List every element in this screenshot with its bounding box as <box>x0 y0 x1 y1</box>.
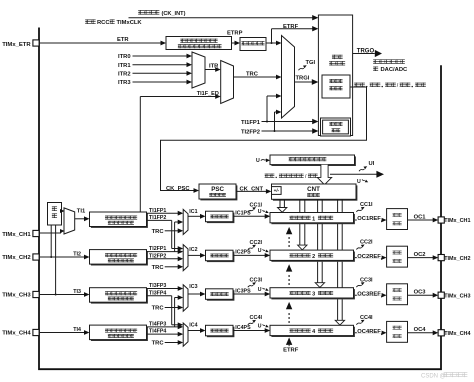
box prescaler 预分频器 (channel 3) <box>207 290 235 301</box>
label 复位、使能、递增/递减、计数 <box>354 83 365 87</box>
box output control 输出控制 (channel 3) <box>387 284 408 305</box>
svg-text:TI1FP1: TI1FP1 <box>149 208 166 214</box>
svg-text:TI1F_ED: TI1F_ED <box>197 91 219 97</box>
wire OC2 <box>408 257 435 259</box>
label TGI interrupt flag <box>299 68 304 70</box>
mux TRC selector <box>221 61 234 104</box>
wire OC4REF <box>355 332 383 334</box>
wire ETRF <box>272 28 315 30</box>
wire TI2FP2 <box>147 258 180 260</box>
svg-text:IC3PS: IC3PS <box>235 288 251 294</box>
svg-text:CK_CNT: CK_CNT <box>240 186 264 192</box>
wire TI4FP3 riser (crosses to IC3) <box>174 298 176 327</box>
svg-text:U: U <box>258 287 262 293</box>
svg-text:RCC: RCC <box>97 20 110 26</box>
svg-text:TRC: TRC <box>152 341 165 347</box>
svg-text:CNT: CNT <box>307 186 320 193</box>
wire CK_CNT <box>236 190 268 192</box>
box trigger controller 触发控制器 <box>318 15 352 136</box>
label to other timers / DAC/ADC <box>373 59 405 63</box>
svg-text:IC2: IC2 <box>189 247 197 253</box>
svg-text:DAC/ADC: DAC/ADC <box>381 67 409 73</box>
svg-text:IC1: IC1 <box>189 209 197 215</box>
wire XOR input from CH2 <box>50 225 52 257</box>
box slave mode controller 从模式控制器 <box>322 75 350 98</box>
svg-text:ITR0: ITR0 <box>118 54 131 60</box>
svg-text:TRC: TRC <box>152 306 165 312</box>
svg-text:U: U <box>258 323 262 329</box>
svg-text:TRGI: TRGI <box>296 75 310 81</box>
svg-text:U: U <box>258 209 262 215</box>
wire TRGO <box>353 53 375 55</box>
box encoder interface 编码器接口 <box>321 118 351 136</box>
register capture/compare 4 捕获/比较4寄存器 <box>271 327 355 337</box>
wire OC1 <box>408 219 435 221</box>
svg-text:1: 1 <box>312 216 315 222</box>
pad TIMx_CH4 <box>33 329 39 335</box>
box input filter & edge detector (channel 2) <box>91 251 148 266</box>
register capture/compare 3 捕获/比较3寄存器 <box>271 289 355 299</box>
box PSC prescaler <box>200 185 237 200</box>
pad TIMx_ETR <box>33 40 39 46</box>
svg-text:TI1: TI1 <box>77 208 86 214</box>
svg-text:TIMx_CH2: TIMx_CH2 <box>444 256 470 262</box>
wire TI1FP1 riser to trigger mux <box>266 96 268 122</box>
svg-text:U: U <box>258 248 262 254</box>
wire ETR <box>39 42 162 44</box>
svg-text:IC3: IC3 <box>189 284 197 290</box>
mux trigger input (TRGI) selector <box>282 36 295 119</box>
wire TRC stub (channel 3) <box>165 307 180 309</box>
svg-text:CK_PSC: CK_PSC <box>166 186 190 192</box>
wire TRC stub (channel 1) <box>165 230 180 232</box>
label UI update interrupt <box>359 169 364 171</box>
pad TIMx_CH3 <box>33 291 39 297</box>
wire U event right <box>330 173 377 175</box>
svg-text:3: 3 <box>312 292 315 298</box>
svg-text:TI4: TI4 <box>73 327 81 333</box>
svg-text:TRC: TRC <box>246 72 259 78</box>
wire CK_INT <box>129 17 315 19</box>
wire IC4PS <box>233 330 267 332</box>
wire TI3 <box>39 294 86 296</box>
bus CNT to capture/compare registers (segment above CC1) <box>279 199 281 207</box>
wire TRC stub (channel 2) <box>165 266 180 268</box>
svg-text:TI2: TI2 <box>73 251 81 257</box>
wire IC1PS <box>233 215 267 217</box>
wire OC1REF <box>355 219 383 221</box>
svg-text:OC2REF: OC2REF <box>357 254 381 260</box>
box input filter & edge detector (channel 4) <box>91 327 148 342</box>
bus segment between CC1 and CC2 <box>299 224 301 245</box>
wire TI1FP1 to encoder <box>262 121 315 123</box>
outer frame border (left, bottom, right) <box>39 28 441 370</box>
wire filter to trigger mux <box>266 42 278 44</box>
wire ETRP <box>232 42 237 44</box>
mux ITR selector <box>192 52 205 88</box>
svg-text:TI3FP3: TI3FP3 <box>149 283 166 289</box>
svg-text:CC1I: CC1I <box>250 202 263 208</box>
wire XOR input from CH3 <box>55 225 57 295</box>
svg-text:IC4: IC4 <box>189 323 197 329</box>
svg-text:U: U <box>357 179 361 185</box>
box input filter & edge detector (channel 1) <box>91 213 148 228</box>
svg-text:TIMxCLK: TIMxCLK <box>117 20 143 26</box>
svg-text:TIMx_CH3: TIMx_CH3 <box>2 293 31 299</box>
wire IC4 <box>188 330 202 332</box>
svg-text:OC4REF: OC4REF <box>357 329 381 335</box>
wire XOR to TI1 mux <box>61 210 63 212</box>
svg-text:TI4FP4: TI4FP4 <box>149 329 166 335</box>
pad TIMx_CH4 (output) <box>438 330 444 336</box>
svg-text:ITR: ITR <box>209 64 219 70</box>
wire TRC stub (channel 4) <box>165 342 180 344</box>
wire IC2PS <box>233 254 267 256</box>
wire TRC <box>234 76 279 78</box>
svg-text:TIMx_ETR: TIMx_ETR <box>2 42 31 48</box>
svg-text:U: U <box>256 158 260 164</box>
svg-text:CC2I: CC2I <box>250 240 263 246</box>
pad TIMx_CH1 (output) <box>438 217 444 223</box>
svg-text:CC3I: CC3I <box>250 278 263 284</box>
svg-text:TI1FP2: TI1FP2 <box>149 215 166 221</box>
wire IC1 <box>188 215 202 217</box>
svg-text:TRC: TRC <box>152 265 165 271</box>
svg-text:CSDN @: CSDN @ <box>421 374 446 380</box>
wire TI2FP1 <box>147 251 180 253</box>
svg-text:ETRF: ETRF <box>283 24 299 30</box>
svg-text:TIMx_CH1: TIMx_CH1 <box>444 218 470 224</box>
wire TI1FP1 <box>147 212 180 214</box>
svg-text:IC2PS: IC2PS <box>235 250 251 256</box>
svg-text:OC4: OC4 <box>414 327 427 333</box>
svg-text:ITR2: ITR2 <box>118 71 131 77</box>
mux IC4 selector <box>183 323 188 346</box>
wire OC3REF <box>355 294 383 296</box>
mux IC2 selector <box>183 245 188 271</box>
box prescaler 预分频器 (channel 4) <box>207 327 235 338</box>
svg-text:TI1FP1: TI1FP1 <box>241 120 261 126</box>
svg-text:OC1REF: OC1REF <box>357 216 381 222</box>
register capture/compare 1 捕获/比较1寄存器 <box>271 214 355 224</box>
svg-text:TI2FP1: TI2FP1 <box>149 246 166 252</box>
pad TIMx_CH3 (output) <box>438 292 444 298</box>
svg-text:+/-: +/- <box>274 188 280 193</box>
bus segment between CC2 and CC3 <box>317 262 319 283</box>
svg-text:2: 2 <box>312 254 315 260</box>
pad TIMx_CH1 <box>33 230 39 236</box>
svg-text:ETRF: ETRF <box>283 348 299 354</box>
wire CH1 to TI1 mux <box>39 232 61 234</box>
svg-text:TGI: TGI <box>306 60 316 66</box>
svg-text:TIMx_CH3: TIMx_CH3 <box>444 293 470 299</box>
svg-text:OC1: OC1 <box>414 214 427 220</box>
box output control 输出控制 (channel 2) <box>387 246 408 267</box>
arrow compare feedback up into CC3 with dotted bus <box>286 302 292 309</box>
wire TI2FP2 riser to trigger mux <box>274 112 276 131</box>
svg-text:PSC: PSC <box>211 186 224 193</box>
wire TI4FP3 <box>147 326 180 328</box>
register capture/compare 2 捕获/比较2寄存器 <box>271 252 355 262</box>
box output control 输出控制 (channel 1) <box>387 209 408 230</box>
box XOR 异或 <box>48 203 62 226</box>
counter CNT 计数器 <box>273 185 358 200</box>
svg-text:OC3REF: OC3REF <box>357 291 381 297</box>
svg-text:TI2FP2: TI2FP2 <box>149 253 166 259</box>
wire OC2REF <box>355 257 383 259</box>
svg-text:ETRP: ETRP <box>227 30 243 36</box>
svg-text:TIMx_CH4: TIMx_CH4 <box>444 331 470 337</box>
label 内部时钟 (CK_INT) <box>138 10 159 15</box>
mux IC1 selector <box>183 209 188 234</box>
svg-text:TI4FP3: TI4FP3 <box>149 322 166 328</box>
svg-text:TRGO: TRGO <box>357 48 375 54</box>
svg-text:TIMx_CH1: TIMx_CH1 <box>2 232 31 238</box>
wire TI1F_ED riser <box>139 97 141 212</box>
wire TI2FP1 riser (crosses to IC1) <box>174 222 176 252</box>
svg-text:TI3FP4: TI3FP4 <box>149 290 166 296</box>
wire TI3FP3 <box>147 288 180 290</box>
svg-text:OC2: OC2 <box>414 252 426 258</box>
wire IC3 <box>188 293 202 295</box>
svg-text:ITR3: ITR3 <box>118 80 131 86</box>
svg-text:CC4I: CC4I <box>250 315 263 321</box>
svg-text:OC3: OC3 <box>414 290 427 296</box>
node ETRF junction <box>271 42 273 44</box>
register ARR 自动重载寄存器 <box>271 156 356 166</box>
mux IC3 selector <box>183 285 188 312</box>
box polarity selection & edge detector & prescaler <box>166 37 232 50</box>
box +/- up-down <box>272 187 282 195</box>
box input filter (ETR) <box>240 38 266 51</box>
wire TI1FP2 (crosses to IC2) <box>147 219 172 221</box>
wire TRGI <box>295 81 315 83</box>
box prescaler 预分频器 (channel 2) <box>207 252 235 263</box>
box output control 输出控制 (channel 4) <box>387 321 408 342</box>
arrow compare feedback up into CC1 with dotted bus <box>286 227 292 234</box>
wire ETRF into CC4 (from below) <box>286 337 292 345</box>
wire TI3FP4 (crosses to IC4) <box>147 295 172 297</box>
wire IC3PS <box>233 293 267 295</box>
wire TI1 <box>75 218 87 220</box>
pad TIMx_CH2 <box>33 254 39 260</box>
label 来自RCC 的 TIMxCLK <box>85 19 96 23</box>
svg-text:ETR: ETR <box>117 37 129 43</box>
box input filter & edge detector (channel 3) <box>91 289 148 304</box>
svg-text:UI: UI <box>369 161 375 167</box>
svg-text:IC4PS: IC4PS <box>235 325 251 331</box>
svg-text:TIMx_CH2: TIMx_CH2 <box>2 255 31 261</box>
wire TI1F_ED <box>140 96 217 98</box>
wire TI2FP2 to encoder <box>262 130 315 132</box>
label 停止、清零或递增/递减 <box>265 174 275 178</box>
svg-text:TRC: TRC <box>152 229 165 235</box>
wire ITR <box>205 69 217 71</box>
wire ETRF riser <box>271 29 273 43</box>
wire slave-mode control (reset/enable/updown/count -> CK_PSC) <box>161 87 367 191</box>
svg-text:TI3: TI3 <box>73 289 81 295</box>
svg-text:TI2FP2: TI2FP2 <box>241 129 260 135</box>
arrow ARR preload to CNT (hollow) <box>317 165 331 185</box>
svg-text:(CK_INT): (CK_INT) <box>162 11 186 17</box>
svg-text:TIMx_CH4: TIMx_CH4 <box>2 331 31 337</box>
svg-text:ITR1: ITR1 <box>118 63 131 69</box>
wire TI4FP4 <box>147 333 180 335</box>
arrow compare feedback up into CC2 with dotted bus <box>286 264 292 271</box>
wire IC2 <box>188 254 202 256</box>
bus segment between CC3 and CC4 <box>337 299 339 320</box>
wire TI2 <box>39 256 86 258</box>
wire OC3 <box>408 294 435 296</box>
mux TI1 selector <box>64 208 75 234</box>
pad TIMx_CH2 (output) <box>438 255 444 261</box>
box prescaler 预分频器 (channel 1) <box>207 213 235 224</box>
wire OC4 <box>408 332 435 334</box>
wire TI4 <box>39 332 86 334</box>
